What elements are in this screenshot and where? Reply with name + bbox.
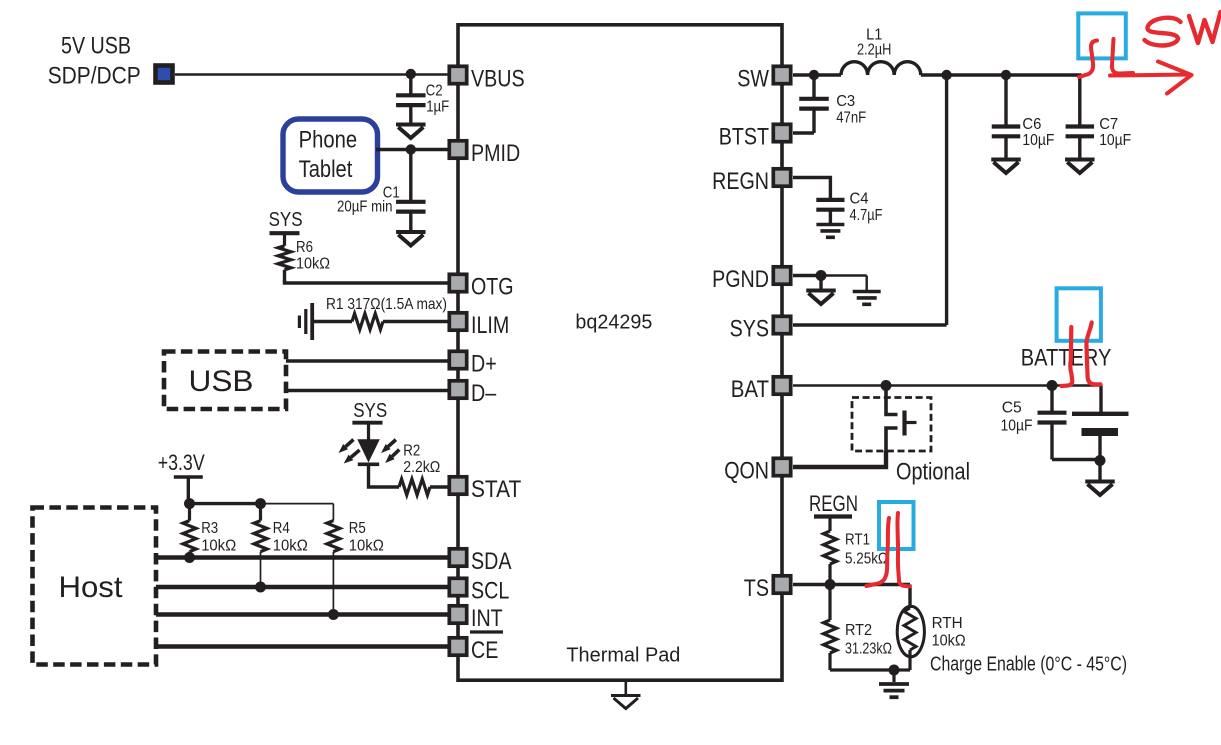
svg-text:1µF: 1µF xyxy=(426,99,449,116)
junction PMID/C1 xyxy=(406,144,416,154)
svg-text:D+: D+ xyxy=(471,351,497,378)
svg-text:2.2kΩ: 2.2kΩ xyxy=(403,459,440,476)
svg-text:CE: CE xyxy=(471,637,498,664)
capacitor C1 xyxy=(409,150,412,202)
svg-text:SYS: SYS xyxy=(730,316,769,343)
svg-text:SCL: SCL xyxy=(471,578,509,605)
svg-text:10kΩ: 10kΩ xyxy=(201,538,236,555)
resistor RT2 xyxy=(824,620,837,653)
wire SYS to R6 xyxy=(283,233,286,246)
wire D+ net xyxy=(286,359,449,363)
wire PMID net xyxy=(376,148,449,151)
svg-text:10kΩ: 10kΩ xyxy=(349,538,384,555)
pin QON (right) square xyxy=(773,458,790,475)
wire D&#8211; net xyxy=(286,389,449,393)
pin D&#8211; (left) square xyxy=(449,381,466,398)
svg-text:4.7µF: 4.7µF xyxy=(850,207,883,224)
ground below PGND xyxy=(806,289,836,293)
LED D1 cathode bar xyxy=(358,462,379,466)
wire PGND right xyxy=(821,274,867,276)
svg-text:REGN: REGN xyxy=(712,168,769,195)
svg-text:INT: INT xyxy=(471,605,503,632)
ground below C1 xyxy=(396,230,426,234)
junction L1 output xyxy=(941,70,951,80)
wire TS to RTH xyxy=(908,585,911,609)
wire R3 top lead xyxy=(188,504,191,521)
wire LED to R2 xyxy=(369,464,400,487)
wire VBUS net xyxy=(175,73,449,75)
resistor R2 xyxy=(399,479,430,495)
wire R4 top to R5 top xyxy=(261,503,334,505)
pin INT (left) square xyxy=(449,606,466,623)
SYS rail bar (R6) xyxy=(270,231,300,235)
junction R3/SDA xyxy=(184,552,195,563)
ground below thermal pad xyxy=(624,680,627,696)
svg-text:Tablet: Tablet xyxy=(299,156,353,183)
svg-text:Charge Enable (0°C - 45°C): Charge Enable (0°C - 45°C) xyxy=(930,654,1127,676)
USB box (dashed) xyxy=(164,352,286,410)
wire +3.3V down xyxy=(187,477,190,504)
pin STAT (left) square xyxy=(449,477,466,494)
earth ground at PGND xyxy=(853,290,881,294)
svg-text:R5: R5 xyxy=(349,520,366,537)
svg-text:VBUS: VBUS xyxy=(471,66,525,93)
thermistor RTH body xyxy=(897,606,924,657)
junction BAT/C5 xyxy=(1047,380,1058,391)
annotation red probe mark right (BATTERY) xyxy=(1086,323,1100,385)
svg-text:BAT: BAT xyxy=(731,376,770,403)
svg-text:Phone: Phone xyxy=(299,126,358,153)
wire R3 bottom to SDA xyxy=(188,552,191,558)
USB source connector square xyxy=(156,66,173,83)
wire SYS pin xyxy=(793,323,947,326)
svg-text:10µF: 10µF xyxy=(1022,132,1054,149)
wire ground to R1 xyxy=(312,320,352,323)
wire REGN to RT1 xyxy=(828,517,831,532)
annotation red text SW - letter S xyxy=(1145,18,1181,46)
SYS rail bar (LED) xyxy=(352,421,382,425)
wire INT net xyxy=(156,612,449,616)
LED arrow 3 xyxy=(388,440,396,447)
svg-text:+3.3V: +3.3V xyxy=(158,450,205,475)
svg-text:10µF: 10µF xyxy=(1001,418,1033,435)
pin TS (right) square xyxy=(773,576,790,593)
annotation red text SW - letter W xyxy=(1189,12,1221,43)
svg-text:REGN: REGN xyxy=(809,491,858,516)
LED arrow 2 xyxy=(351,450,360,457)
svg-text:PMID: PMID xyxy=(471,140,520,167)
wire R6 to OTG pin xyxy=(285,280,450,283)
svg-text:BATTERY: BATTERY xyxy=(1021,345,1112,372)
svg-text:31.23kΩ: 31.23kΩ xyxy=(845,641,892,658)
svg-text:47nF: 47nF xyxy=(836,110,866,127)
svg-text:SYS: SYS xyxy=(353,400,387,422)
overline on CE pin label xyxy=(470,630,503,633)
wire R5 bottom to INT xyxy=(332,552,334,615)
+3.3V rail bar xyxy=(174,475,203,479)
thermistor RTH element xyxy=(904,608,916,650)
wire CE net xyxy=(156,644,449,648)
svg-text:RT1: RT1 xyxy=(845,532,870,549)
junction C6 node xyxy=(1001,70,1011,80)
svg-text:Host: Host xyxy=(59,571,124,604)
ground below battery xyxy=(1085,480,1115,484)
junction SW/C3 xyxy=(809,70,819,80)
svg-text:QON: QON xyxy=(724,458,769,485)
svg-text:C6: C6 xyxy=(1022,116,1041,133)
inductor L1 xyxy=(841,62,921,75)
svg-text:SW: SW xyxy=(737,66,769,93)
signal ground at R1 xyxy=(310,303,314,340)
svg-text:10kΩ: 10kΩ xyxy=(932,633,966,650)
wire R2 to STAT pin xyxy=(430,485,449,488)
junction R4 top xyxy=(255,498,266,509)
svg-text:R2: R2 xyxy=(403,443,420,460)
junction BAT/QON xyxy=(881,380,892,391)
svg-text:5.25kΩ: 5.25kΩ xyxy=(845,551,888,568)
wire RT2 top xyxy=(828,585,831,621)
wire R4 top lead xyxy=(259,504,262,521)
resistor R4 xyxy=(254,521,267,552)
wire switch bottom lead xyxy=(886,428,898,451)
wire R5 top lead xyxy=(332,504,334,521)
annotation box (TS probe) xyxy=(879,502,914,549)
wire L1 to SYS node xyxy=(921,73,1006,76)
capacitor C4 xyxy=(829,198,832,200)
svg-text:SYS: SYS xyxy=(269,209,303,231)
pushbutton S1 actuator xyxy=(902,411,906,436)
svg-text:USB: USB xyxy=(189,365,254,398)
pin CE (left) square xyxy=(449,638,466,655)
svg-text:C5: C5 xyxy=(1002,400,1022,417)
annotation red probe mark right (TS) xyxy=(897,513,909,587)
svg-text:TS: TS xyxy=(744,575,769,602)
svg-text:Optional: Optional xyxy=(896,459,970,486)
wire SYS vertical from L1 node xyxy=(945,75,948,325)
pin SYS (right) square xyxy=(773,316,790,333)
capacitor C7 xyxy=(1078,125,1081,127)
svg-text:C4: C4 xyxy=(850,191,869,208)
svg-text:PGND: PGND xyxy=(712,266,769,293)
wire RT2 bottom xyxy=(828,653,831,670)
svg-text:R6: R6 xyxy=(296,239,313,256)
junction R4/SCL xyxy=(255,582,266,593)
wire to earth ground xyxy=(866,276,868,292)
junction battery ground xyxy=(1095,455,1106,466)
wire R1 to ILIM pin xyxy=(383,320,449,323)
wire RTH bottom xyxy=(908,650,911,670)
junction PGND xyxy=(816,270,827,281)
ground below C6 xyxy=(991,158,1021,162)
svg-text:SDA: SDA xyxy=(471,548,512,575)
junction +3.3V/R3 xyxy=(184,498,195,509)
wire SYS to LED xyxy=(367,423,370,440)
pin D+ (left) square xyxy=(449,351,466,368)
earth ground at TS xyxy=(879,682,909,686)
wire SW pin to L1 xyxy=(793,73,841,76)
svg-text:10µF: 10µF xyxy=(1099,132,1131,149)
annotation red probe mark left (TS) xyxy=(867,518,890,586)
ground below C2 xyxy=(396,123,426,127)
battery BT1 positive plate xyxy=(1099,386,1102,414)
svg-text:BTST: BTST xyxy=(719,124,770,151)
annotation red arrow (SW) xyxy=(1110,62,1192,94)
LED arrow 1 xyxy=(346,440,354,447)
wire PGND down xyxy=(819,276,822,290)
annotation red probe mark left (SW) xyxy=(1079,41,1097,78)
junction R5/INT xyxy=(328,609,339,620)
junction VBUS/C2 xyxy=(406,69,416,79)
svg-text:Thermal Pad: Thermal Pad xyxy=(566,645,680,667)
pin BTST (right) square xyxy=(773,124,790,141)
wire SDA net xyxy=(156,555,449,559)
wire RT1 to TS xyxy=(828,564,831,585)
wire battery to ground xyxy=(1098,461,1101,481)
wire R6 bottom lead xyxy=(283,270,286,283)
resistor R6 xyxy=(278,246,291,270)
pin SCL (left) square xyxy=(449,578,466,595)
svg-text:2.2µH: 2.2µH xyxy=(857,42,891,59)
svg-text:R1 317Ω(1.5A max): R1 317Ω(1.5A max) xyxy=(326,296,447,313)
svg-text:C7: C7 xyxy=(1099,116,1118,133)
svg-text:RT2: RT2 xyxy=(845,622,872,639)
resistor RT1 xyxy=(824,531,837,564)
svg-text:ILIM: ILIM xyxy=(471,312,509,339)
resistor R5 xyxy=(327,521,340,552)
annotation red probe mark right (SW) xyxy=(1112,39,1133,74)
pin OTG (left) square xyxy=(449,274,466,291)
wire SCL net xyxy=(156,585,449,589)
wire R4 bottom to SCL xyxy=(260,552,262,587)
svg-text:RTH: RTH xyxy=(932,615,963,632)
pin BAT (right) square xyxy=(773,377,790,394)
svg-text:SDP/DCP: SDP/DCP xyxy=(48,63,141,90)
ground below C4 (earth) xyxy=(816,223,844,227)
wire REGN to C4 xyxy=(793,178,830,199)
Host box (dashed) xyxy=(33,508,157,665)
wire PGND xyxy=(793,274,821,277)
wire QON net xyxy=(793,451,886,467)
wire C5 bottom xyxy=(1052,458,1100,461)
pin PMID (left) square xyxy=(449,141,466,158)
annotation red probe mark left (BATTERY) xyxy=(1062,327,1073,386)
svg-text:D–: D– xyxy=(471,380,497,407)
svg-text:R3: R3 xyxy=(201,520,218,537)
svg-text:bq24295: bq24295 xyxy=(575,312,652,334)
LED D1 triangle xyxy=(357,439,380,462)
svg-text:5V USB: 5V USB xyxy=(61,33,131,60)
resistor R3 xyxy=(183,521,196,552)
svg-text:R4: R4 xyxy=(273,520,290,537)
annotation box (BATTERY probe) xyxy=(1057,288,1101,341)
junction TS/RT1 xyxy=(825,579,836,590)
junction TS ground xyxy=(889,665,900,676)
battery BT1 negative plate xyxy=(1082,428,1119,436)
capacitor C6 xyxy=(1004,75,1007,127)
IC U1 bq24295 body xyxy=(458,25,782,680)
Optional box (dashed) xyxy=(852,398,931,452)
svg-text:20µF min: 20µF min xyxy=(337,199,393,216)
capacitor C5 xyxy=(1050,386,1053,413)
pin PGND (right) square xyxy=(773,267,790,284)
wire R3 top to R4 top xyxy=(190,502,261,505)
REGN rail bar xyxy=(814,514,852,518)
resistor R1 xyxy=(352,314,383,330)
wire TS net xyxy=(793,583,910,586)
wire to TS ground xyxy=(892,670,895,682)
svg-text:OTG: OTG xyxy=(471,274,514,301)
Phone Tablet box xyxy=(283,119,378,192)
annotation box (SW probe) xyxy=(1078,13,1126,58)
wire switch top lead xyxy=(886,386,898,415)
pin REGN (right) square xyxy=(773,169,790,186)
svg-text:C2: C2 xyxy=(426,83,443,100)
svg-text:C3: C3 xyxy=(836,93,855,110)
svg-text:10kΩ: 10kΩ xyxy=(296,256,330,273)
pin ILIM (left) square xyxy=(449,313,466,330)
capacitor C3 xyxy=(812,80,815,99)
pin VBUS (left) square xyxy=(449,66,466,83)
LED arrow 4 xyxy=(392,450,399,457)
ground below C7 xyxy=(1065,158,1095,162)
pin SDA (left) square xyxy=(449,549,466,566)
pin SW (right) square xyxy=(773,66,790,83)
capacitor C2 xyxy=(409,74,412,95)
svg-text:STAT: STAT xyxy=(471,476,522,503)
svg-text:10kΩ: 10kΩ xyxy=(273,538,308,555)
wire to C7 corner xyxy=(1006,75,1080,125)
wire BAT net xyxy=(793,384,1101,386)
